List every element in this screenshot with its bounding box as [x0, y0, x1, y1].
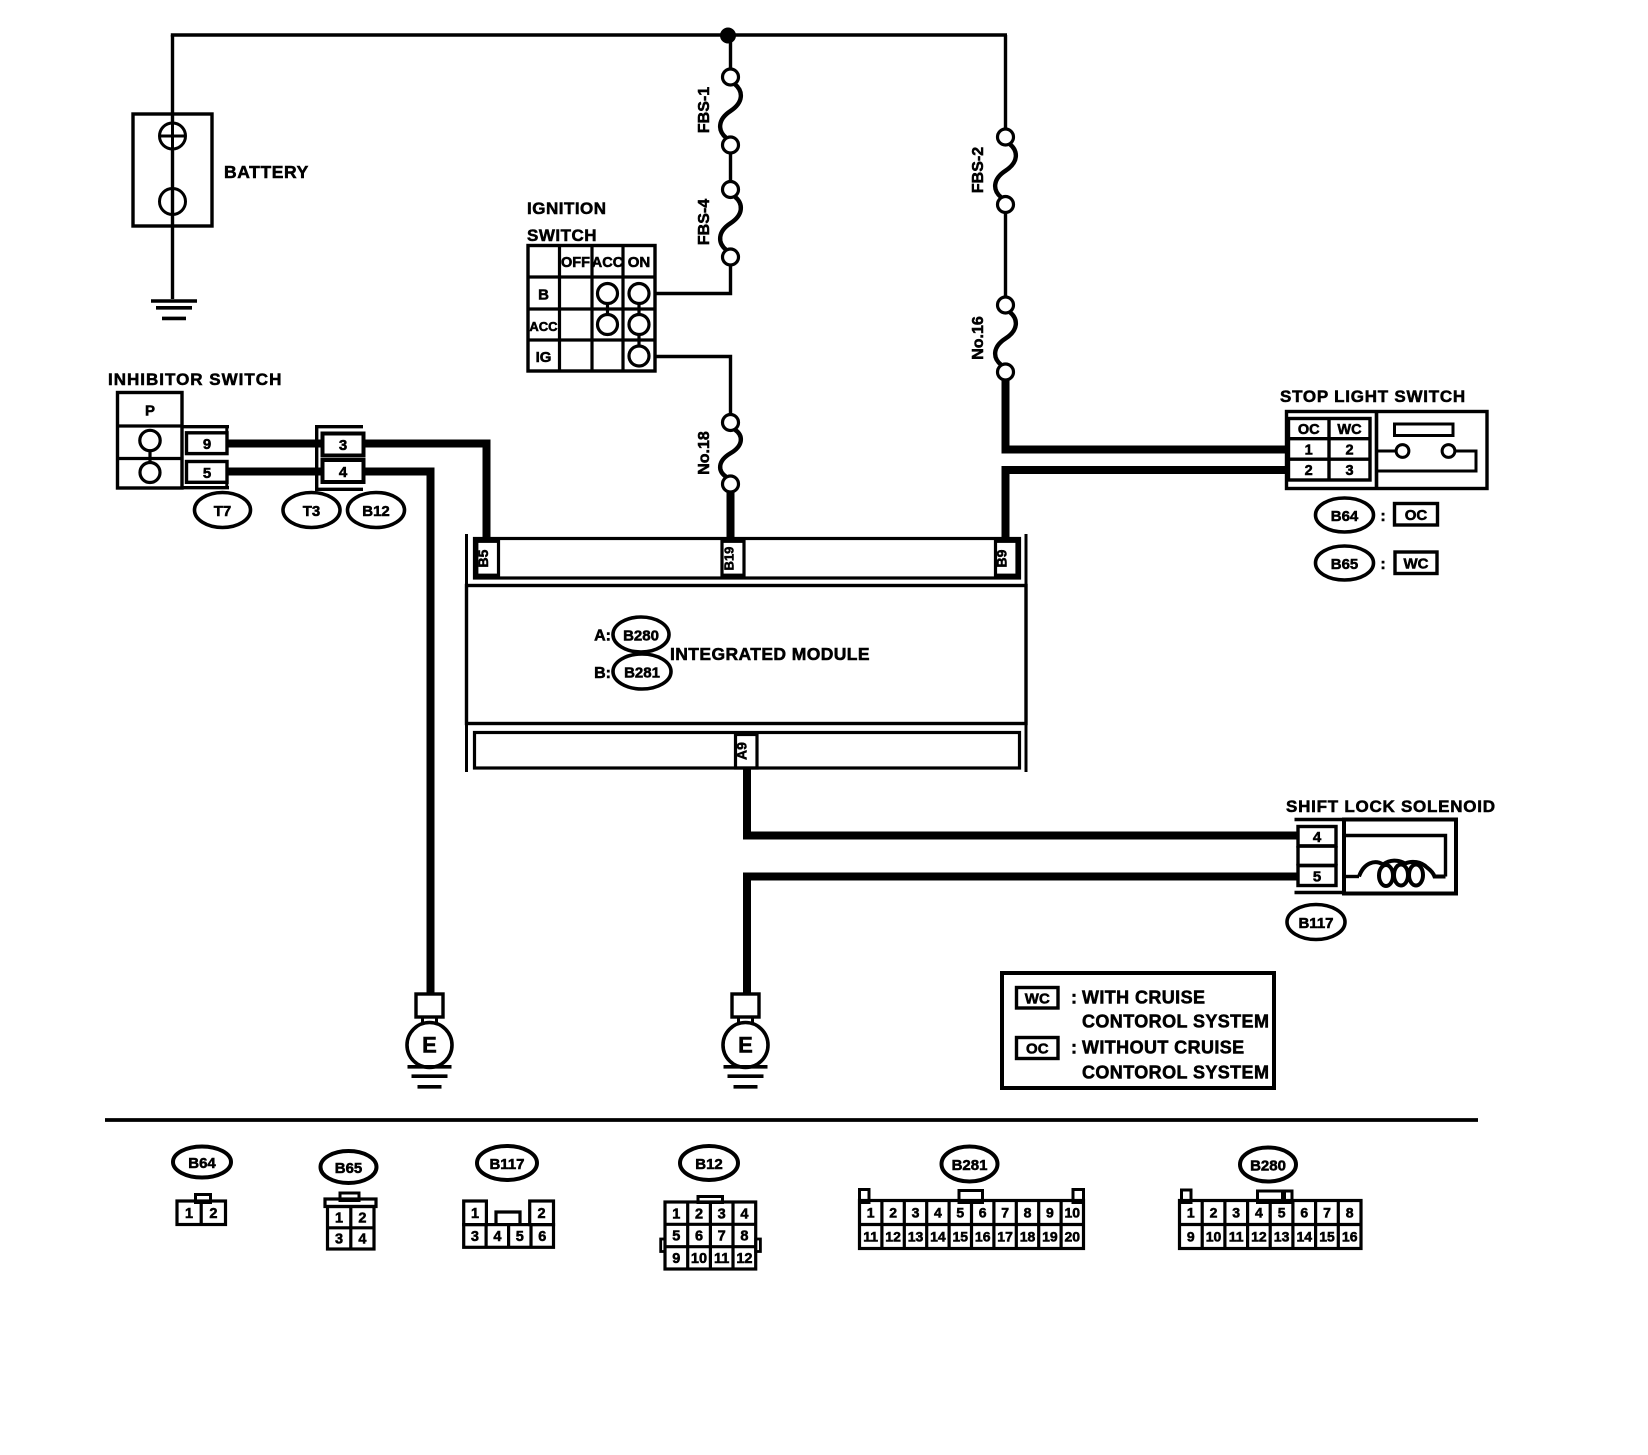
inhibitor switch pin 5 [187, 462, 228, 483]
ground E1 [416, 994, 443, 1017]
stop light switch divider [1375, 412, 1379, 489]
svg-text:10: 10 [691, 1251, 707, 1267]
shift lock solenoid pin 5 [1298, 866, 1336, 886]
wire: inhibitor pin 9 to connector pin 3 [227, 440, 321, 448]
svg-text:B19: B19 [721, 547, 736, 571]
wire: shift lock solenoid pin 5 to ground E2 [747, 877, 1298, 995]
svg-text:2: 2 [695, 1206, 703, 1222]
svg-text:18: 18 [1020, 1229, 1036, 1245]
svg-text:19: 19 [1042, 1229, 1058, 1245]
connector view B12 pins [698, 1197, 723, 1203]
svg-text:CONTOROL SYSTEM: CONTOROL SYSTEM [1082, 1012, 1269, 1032]
svg-text:15: 15 [1319, 1229, 1335, 1245]
svg-text:13: 13 [1274, 1229, 1290, 1245]
stop light switch SW3 body [1287, 412, 1488, 489]
integrated module pin B19 [722, 541, 744, 575]
svg-text:12: 12 [885, 1229, 901, 1245]
svg-text:4: 4 [740, 1206, 748, 1222]
ground E2 [732, 994, 759, 1017]
connector view B281 pins [860, 1190, 870, 1203]
svg-text:WC: WC [1404, 556, 1429, 573]
svg-text:6: 6 [538, 1229, 546, 1245]
svg-text:P: P [145, 403, 155, 420]
svg-text:5: 5 [1313, 869, 1321, 886]
svg-text:3: 3 [339, 437, 347, 454]
svg-text:9: 9 [1046, 1205, 1054, 1221]
svg-text:3: 3 [912, 1205, 920, 1221]
stop light switch contacts [1377, 450, 1397, 453]
connector view B65 pins [340, 1193, 359, 1201]
connector B65 oval [1316, 546, 1374, 580]
svg-text:2: 2 [1210, 1205, 1218, 1221]
battery B1 [133, 114, 212, 226]
svg-text:1: 1 [1187, 1205, 1195, 1221]
svg-text:2: 2 [538, 1206, 546, 1222]
inductor coil L1 [1346, 875, 1359, 878]
integrated module pin A9 [736, 735, 758, 769]
connector bracket T3/B12 [317, 427, 363, 490]
svg-text:No.16: No.16 [970, 316, 987, 360]
connector B64 oval [1316, 498, 1374, 532]
ignition switch contacts [598, 284, 618, 304]
svg-text:10: 10 [1065, 1205, 1081, 1221]
svg-text:FBS-4: FBS-4 [696, 199, 713, 245]
svg-text:T3: T3 [303, 503, 321, 520]
svg-text:16: 16 [975, 1229, 991, 1245]
svg-text:9: 9 [203, 436, 211, 453]
svg-text:2: 2 [358, 1210, 366, 1226]
separator line [105, 1118, 1478, 1122]
svg-text:9: 9 [1187, 1229, 1195, 1245]
svg-text:5: 5 [516, 1229, 524, 1245]
connector pin 3 [323, 434, 364, 456]
svg-text:SHIFT LOCK SOLENOID: SHIFT LOCK SOLENOID [1286, 797, 1496, 816]
svg-text:3: 3 [1232, 1205, 1240, 1221]
svg-text:4: 4 [1313, 829, 1322, 846]
stop light switch plunger bar [1395, 424, 1454, 436]
svg-text::: : [1071, 988, 1077, 1008]
shift lock solenoid body [1344, 820, 1456, 894]
connector view B64 pins [196, 1195, 211, 1203]
svg-text::: : [1071, 1038, 1077, 1058]
svg-text:3: 3 [718, 1206, 726, 1222]
svg-text:3: 3 [1345, 463, 1353, 479]
wire: junction to FBS-1 [729, 35, 732, 69]
svg-text:8: 8 [740, 1229, 748, 1245]
connector B117 oval [1287, 905, 1345, 940]
wire: connector pin 3 to integrated module pin B5 [364, 444, 487, 541]
wire: ignition IG terminal to fuse No.18 [654, 357, 731, 416]
svg-text:15: 15 [953, 1229, 969, 1245]
svg-text:1: 1 [335, 1210, 343, 1226]
integrated module bottom connector strip [475, 733, 1020, 769]
legend tag OC [1017, 1038, 1059, 1059]
svg-text:14: 14 [930, 1229, 946, 1245]
connector B12 oval [348, 493, 405, 528]
connector bracket B117 [1295, 818, 1345, 821]
svg-text:WITHOUT CRUISE: WITHOUT CRUISE [1082, 1038, 1245, 1058]
svg-text:BATTERY: BATTERY [224, 162, 309, 182]
svg-text:OFF: OFF [561, 255, 590, 271]
inhibitor switch SW2 body [118, 393, 183, 489]
svg-text:4: 4 [934, 1205, 942, 1221]
svg-text:2: 2 [209, 1206, 217, 1222]
wire: FBS-2 to fuse No.16 [1004, 213, 1007, 298]
svg-text:B: B [538, 287, 549, 304]
svg-text:WC: WC [1337, 422, 1362, 438]
svg-text:SWITCH: SWITCH [527, 226, 597, 245]
svg-text:6: 6 [979, 1205, 987, 1221]
svg-text:11: 11 [1229, 1229, 1244, 1245]
svg-text:A:: A: [594, 628, 611, 645]
svg-text:1: 1 [471, 1206, 479, 1222]
svg-text:17: 17 [997, 1229, 1013, 1245]
fuse FBS-2 [998, 129, 1014, 145]
svg-text:5: 5 [672, 1229, 680, 1245]
svg-text:STOP LIGHT SWITCH: STOP LIGHT SWITCH [1280, 387, 1466, 406]
shift lock solenoid pin 4 [1298, 827, 1336, 847]
svg-text:7: 7 [718, 1229, 726, 1245]
wire: FBS-1 to FBS-4 [729, 153, 732, 182]
fuse No.16 [998, 297, 1014, 313]
svg-text:B5: B5 [475, 549, 491, 567]
wire: fuse No.16 to stop light switch pin 1 [1006, 380, 1290, 450]
svg-text:A9: A9 [733, 742, 749, 760]
connector view B280 pins [1182, 1190, 1192, 1203]
inhibitor switch pin 9 [187, 433, 228, 454]
svg-text:B65: B65 [335, 1160, 363, 1177]
connector view B117 oval [477, 1146, 537, 1180]
svg-text:B12: B12 [695, 1156, 723, 1173]
svg-text:ACC: ACC [592, 255, 624, 271]
integrated module pin B5 [477, 541, 499, 575]
svg-text:4: 4 [339, 464, 348, 481]
wire: top bus to FBS-2 [1004, 35, 1007, 130]
integrated module U1 body [467, 586, 1027, 724]
svg-text:B65: B65 [1331, 556, 1359, 573]
connector pin 4 [323, 460, 364, 482]
svg-text:WITH CRUISE: WITH CRUISE [1082, 988, 1205, 1008]
net tag OC [1395, 504, 1438, 526]
wire: fuse No.18 to integrated module pin B19 [727, 491, 735, 540]
svg-text:6: 6 [1300, 1205, 1308, 1221]
svg-text:8: 8 [1024, 1205, 1032, 1221]
wire: connector pin 4 to ground E1 [364, 472, 431, 995]
ignition switch SW1 table [528, 246, 655, 372]
svg-text:T7: T7 [214, 503, 232, 520]
svg-text:B9: B9 [994, 549, 1010, 567]
svg-text:OC: OC [1026, 1041, 1049, 1058]
svg-text:4: 4 [1255, 1205, 1263, 1221]
svg-text:IGNITION: IGNITION [527, 199, 607, 218]
stop light switch connector table [1289, 419, 1371, 481]
ground: battery ground [151, 299, 197, 303]
wire: inhibitor pin 5 to connector pin 4 [227, 468, 321, 476]
svg-text:CONTOROL SYSTEM: CONTOROL SYSTEM [1082, 1063, 1269, 1083]
wire: stop light switch pin 2 to integrated module pin B9 [1006, 470, 1290, 540]
svg-text:2: 2 [1305, 463, 1313, 479]
wire: module pin A9 to shift lock solenoid pin 4 [747, 768, 1298, 836]
svg-text:FBS-2: FBS-2 [970, 147, 987, 193]
svg-text:FBS-1: FBS-1 [696, 87, 713, 133]
svg-text:OC: OC [1298, 422, 1320, 438]
svg-text:B280: B280 [1250, 1158, 1286, 1175]
svg-text::: : [1380, 556, 1385, 573]
wire: solenoid pin 4 internal [1346, 836, 1446, 877]
svg-text:B281: B281 [624, 665, 660, 682]
svg-text:3: 3 [471, 1229, 479, 1245]
svg-text:WC: WC [1025, 991, 1050, 1008]
connector T3 oval [283, 493, 340, 528]
fuse FBS-1 [723, 69, 739, 85]
net tag WC [1395, 552, 1437, 574]
fuse No.18 [723, 415, 739, 431]
connector T7 oval [195, 493, 251, 528]
connector view B64 oval [173, 1147, 231, 1178]
svg-text:B12: B12 [362, 503, 390, 520]
wire: FBS-4 to ignition switch B terminal [654, 265, 731, 294]
svg-text:13: 13 [908, 1229, 924, 1245]
integrated module pin B9 [996, 541, 1018, 575]
svg-text:20: 20 [1065, 1229, 1081, 1245]
svg-text:1: 1 [672, 1206, 680, 1222]
node: junction of FBS-1 and FBS-2 branches [721, 28, 736, 43]
svg-text:12: 12 [736, 1251, 752, 1267]
svg-text:1: 1 [867, 1205, 875, 1221]
svg-text:IG: IG [536, 349, 552, 366]
legend box [1002, 973, 1274, 1088]
svg-text:4: 4 [493, 1229, 501, 1245]
svg-text:2: 2 [1345, 443, 1353, 459]
connector view B65 oval [321, 1151, 377, 1183]
svg-text:1: 1 [185, 1206, 193, 1222]
integrated module U1 left side line [465, 534, 468, 772]
svg-text:5: 5 [203, 465, 211, 482]
svg-text:3: 3 [335, 1232, 343, 1248]
svg-text:1: 1 [1305, 443, 1313, 459]
svg-text:9: 9 [672, 1251, 680, 1267]
integrated module U1 right side line [1025, 534, 1028, 772]
svg-text:12: 12 [1251, 1229, 1267, 1245]
connector view B12 oval [680, 1146, 738, 1180]
svg-text:11: 11 [863, 1229, 878, 1245]
svg-text:OC: OC [1405, 507, 1428, 524]
svg-text:E: E [422, 1033, 437, 1058]
connector bracket T7 [183, 425, 229, 428]
svg-text:ON: ON [628, 254, 651, 271]
svg-text:7: 7 [1323, 1205, 1331, 1221]
wire: battery positive bus (top horizontal) [171, 33, 1007, 36]
svg-text:B117: B117 [489, 1156, 524, 1173]
svg-text:11: 11 [714, 1251, 729, 1267]
svg-text:B64: B64 [188, 1155, 216, 1172]
svg-text:No.18: No.18 [696, 431, 713, 475]
connector view B280 oval [1240, 1148, 1296, 1182]
integrated module top connector strip [475, 539, 1020, 579]
svg-text:B:: B: [594, 665, 611, 682]
svg-text:8: 8 [1346, 1205, 1354, 1221]
connector view B117 pins [464, 1201, 487, 1225]
svg-text:5: 5 [1278, 1205, 1286, 1221]
svg-text:B280: B280 [623, 628, 659, 645]
svg-text:7: 7 [1001, 1205, 1009, 1221]
fuse FBS-4 [723, 182, 739, 198]
svg-text:4: 4 [358, 1232, 366, 1248]
wire: battery to top bus [171, 35, 174, 123]
connector view B281 oval [942, 1147, 998, 1182]
svg-text:INHIBITOR SWITCH: INHIBITOR SWITCH [108, 370, 282, 389]
svg-text:2: 2 [889, 1205, 897, 1221]
svg-text:B281: B281 [952, 1157, 988, 1174]
svg-text:ACC: ACC [529, 319, 558, 334]
svg-text:14: 14 [1297, 1229, 1313, 1245]
svg-text:10: 10 [1206, 1229, 1222, 1245]
svg-text:6: 6 [695, 1229, 703, 1245]
svg-text:INTEGRATED MODULE: INTEGRATED MODULE [670, 644, 870, 664]
legend tag WC [1017, 988, 1059, 1009]
svg-text:B117: B117 [1298, 915, 1333, 932]
svg-text:5: 5 [956, 1205, 964, 1221]
svg-text::: : [1380, 508, 1385, 525]
svg-text:16: 16 [1342, 1229, 1358, 1245]
svg-text:E: E [738, 1033, 753, 1058]
svg-text:B64: B64 [1331, 508, 1359, 525]
